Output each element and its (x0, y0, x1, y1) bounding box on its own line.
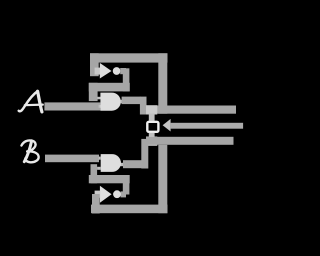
inverter U1 bubble (113, 67, 121, 75)
wire band NOT1 to AND1 horizontal (89, 83, 130, 92)
wire bottom loop left vertical (92, 194, 100, 214)
node NOT2 input junction (95, 191, 101, 198)
inverter U4 triangle (100, 186, 112, 203)
label B (22, 140, 39, 162)
wire AND1 output horizontal (122, 97, 141, 105)
inverter U4 bubble (113, 190, 121, 198)
node junction J1 (146, 105, 157, 114)
wire NOT2 output stub (121, 191, 127, 197)
node junction J2 (146, 137, 157, 146)
wire band AND2 to NOT2 horizontal (89, 175, 130, 183)
wire bottom loop right vertical (158, 145, 167, 213)
wire NOT1 output vertical (123, 68, 130, 91)
wire output Y1 horizontal (146, 137, 234, 145)
wire arrow shaft horizontal (171, 123, 244, 129)
pin AND2 output stub (120, 163, 123, 166)
label A (19, 91, 43, 112)
pin AND2 bottom input stub (97, 167, 101, 170)
wire AND1 top input vertical (89, 83, 98, 101)
port IN square (147, 122, 158, 132)
wire NOT2 output vertical (123, 175, 130, 195)
wire B input horizontal (45, 155, 99, 163)
pin AND1 top input stub (97, 97, 100, 100)
and-gate U3 body (101, 154, 121, 172)
and-gate U2 body (100, 93, 120, 111)
node NOT1 input junction (95, 68, 101, 75)
wire top loop left vertical (90, 53, 99, 76)
pin AND1 output stub (120, 100, 123, 103)
wire AND2 bottom input vertical (91, 164, 98, 183)
wire top loop horizontal (90, 53, 168, 62)
pin AND1 bottom input stub (99, 105, 101, 108)
wire port stub bottom vertical (149, 133, 155, 140)
wire AND2 output horizontal (123, 160, 142, 168)
wire top loop right vertical (158, 53, 167, 113)
wire output Y0 horizontal (146, 106, 236, 114)
arrow head input pointer (163, 119, 171, 132)
wire AND2 output jog vertical (141, 139, 148, 169)
wire AND1 output jog vertical (140, 97, 147, 115)
wire bottom loop horizontal (91, 205, 168, 214)
wire A input horizontal (44, 102, 100, 110)
pin AND2 top input stub (99, 157, 101, 160)
wire port stub top vertical (149, 114, 155, 121)
wire NOT1 output stub (120, 68, 126, 74)
inverter U1 triangle (100, 63, 112, 79)
